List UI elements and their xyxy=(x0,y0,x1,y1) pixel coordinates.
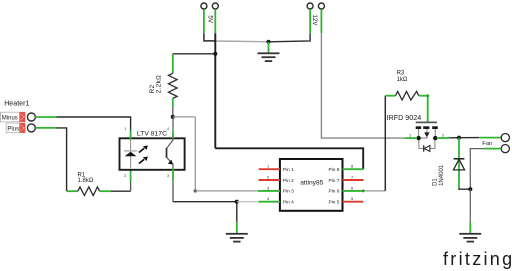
wire D1 to fan-/ground xyxy=(459,188,470,189)
resistor R1 1.8k (horizontal) xyxy=(67,172,131,195)
svg-text:Heater1: Heater1 xyxy=(4,100,29,108)
svg-text:LTV 817C: LTV 817C xyxy=(137,130,167,137)
svg-text:1N4001: 1N4001 xyxy=(439,164,445,186)
svg-text:3: 3 xyxy=(267,185,269,190)
svg-text:fritzing: fritzing xyxy=(443,249,512,269)
junction D1 / Fan- / ground xyxy=(468,187,472,191)
svg-text:2: 2 xyxy=(409,134,411,138)
svg-text:Plus: Plus xyxy=(7,126,19,132)
svg-text:7: 7 xyxy=(351,175,353,180)
svg-text:1kΩ: 1kΩ xyxy=(397,77,408,83)
attiny pin labels xyxy=(283,167,340,206)
mosfet pin numbers xyxy=(409,134,444,138)
svg-text:5: 5 xyxy=(351,196,353,201)
MOSFET source terminal dot xyxy=(416,136,420,140)
svg-text:2.2kΩ: 2.2kΩ xyxy=(156,75,163,93)
opto light arrows xyxy=(139,146,148,164)
attiny pin 7 leg (red) xyxy=(343,179,364,181)
opto pin numbers xyxy=(124,127,169,178)
wire 5V rail vertical xyxy=(214,33,216,148)
attiny pin numbers xyxy=(267,164,353,202)
connector Heater1 Minus xyxy=(0,112,35,122)
svg-text:3: 3 xyxy=(442,134,444,138)
supply 12V connector xyxy=(307,3,324,33)
svg-text:Pin 5: Pin 5 xyxy=(329,200,340,206)
svg-text:2: 2 xyxy=(267,175,269,180)
svg-text:attiny85: attiny85 xyxy=(300,180,323,187)
diode D1 1N4001 xyxy=(432,138,464,188)
svg-text:1: 1 xyxy=(124,127,126,131)
svg-text:D1: D1 xyxy=(432,178,438,186)
attiny pin 2 leg (red) xyxy=(259,179,280,181)
wire Fan- down xyxy=(470,149,501,190)
svg-text:4: 4 xyxy=(167,127,169,131)
opto phototransistor xyxy=(167,138,174,168)
MOSFET drain terminal dot xyxy=(433,136,437,140)
wire source green leg xyxy=(405,137,417,139)
junction at top ground xyxy=(266,40,270,44)
svg-text:2: 2 xyxy=(124,174,126,178)
svg-text:IRFD 9024: IRFD 9024 xyxy=(387,113,422,122)
svg-text:5V: 5V xyxy=(206,15,213,24)
svg-text:Minus: Minus xyxy=(2,115,18,121)
wire R3 to MOSFET gate xyxy=(427,96,429,123)
junction drain / D1 / fan xyxy=(457,136,461,140)
svg-text:R3: R3 xyxy=(397,71,405,77)
svg-text:Pin 3: Pin 3 xyxy=(283,189,294,195)
wire Minus to opto pin1 xyxy=(35,117,130,131)
svg-text:1.8kΩ: 1.8kΩ xyxy=(78,178,94,184)
wire ground to 12V xyxy=(269,33,311,42)
wire opto emitter to gnd junction xyxy=(173,201,237,203)
svg-text:Fan: Fan xyxy=(482,141,492,147)
wire 5V rail to attiny pin8 xyxy=(215,148,363,169)
attiny pin 5 leg (red) xyxy=(343,201,364,203)
op-to-coupler U1 LTV817C box xyxy=(120,138,185,170)
wire 12V rail (gray) to MOSFET source xyxy=(321,33,404,138)
transistor Q1 IRFD9024 (P-MOSFET) xyxy=(416,122,438,138)
opto emitter pin down xyxy=(172,169,174,202)
svg-text:12V: 12V xyxy=(311,14,318,26)
attiny pin 8 leg (green) xyxy=(343,168,364,170)
MOSFET body diode xyxy=(419,138,435,152)
green bend dots xyxy=(362,189,365,192)
svg-text:1: 1 xyxy=(267,164,269,169)
wire Plus down to R1 xyxy=(35,128,66,191)
junction 5V / R2 xyxy=(213,52,217,56)
wire R2 top to 5V rail xyxy=(173,53,216,55)
wire drain to fan junction xyxy=(437,137,459,139)
resistor R3 1k (horizontal) xyxy=(385,71,427,101)
wire junction to Fan+ xyxy=(459,137,501,139)
svg-text:3: 3 xyxy=(167,174,169,178)
attiny pin 3 leg (green) xyxy=(258,190,280,192)
svg-text:Pin 7: Pin 7 xyxy=(329,178,340,184)
svg-text:Pin 1: Pin 1 xyxy=(283,167,294,173)
wire junction to attiny pin4 (light) xyxy=(237,201,259,203)
attiny pin 6 leg (green) xyxy=(343,190,364,192)
opto LED xyxy=(124,140,137,168)
junction emitter/pin4/ground xyxy=(235,200,239,204)
junction R2 bottom / opto collector xyxy=(171,115,175,119)
opto pin legs xyxy=(131,117,173,140)
svg-text:Pin 4: Pin 4 xyxy=(283,200,294,206)
wire attiny pin6 to R3/gate net xyxy=(363,96,385,191)
wire 5V left leg to rail xyxy=(204,33,215,41)
ground GND2 (below attiny) xyxy=(226,202,248,243)
ground GND1 (top) xyxy=(258,42,280,62)
svg-text:6: 6 xyxy=(351,185,353,190)
connector Heater1 Plus xyxy=(6,123,35,133)
connector Fan xyxy=(501,134,509,153)
attiny pin 1 leg (red) xyxy=(259,168,280,170)
svg-text:Pin 2: Pin 2 xyxy=(283,178,294,184)
IC U2 attiny85 box xyxy=(280,159,343,211)
supply 5V connector xyxy=(201,3,218,33)
svg-text:8: 8 xyxy=(351,164,353,169)
svg-text:Pin 8: Pin 8 xyxy=(329,167,340,173)
resistor R2 2.2k (vertical) xyxy=(149,54,177,117)
svg-text:Pin 6: Pin 6 xyxy=(329,189,340,195)
wire R2 junction to attiny pin3 xyxy=(173,117,258,193)
wire 5V to ground (gray) xyxy=(215,40,268,43)
wire R1 to opto pin2 xyxy=(130,169,132,192)
ground GND3 (fan) xyxy=(459,189,481,242)
attiny pin 4 leg (green) xyxy=(259,201,280,203)
